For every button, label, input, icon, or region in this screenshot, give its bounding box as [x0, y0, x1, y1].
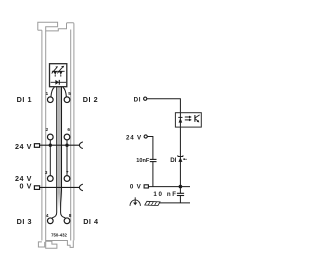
terminal 1 — [47, 97, 53, 103]
hook wire to terminal 1 — [51, 87, 55, 97]
module inner left edge — [45, 31, 47, 241]
wire rail to terminal 3 — [49, 145, 51, 175]
capacitor C2 plate 2 — [177, 195, 184, 197]
wire rail to terminal 7 — [66, 145, 68, 175]
wire junction to capacitor C2 — [179, 187, 181, 194]
diode D1 line — [51, 81, 67, 83]
optocoupler arrow 1 head — [189, 116, 192, 119]
wire DI3 channel (left internal wire to terminal 4) — [52, 87, 57, 218]
optocoupler arrow 1 — [185, 116, 190, 118]
phototransistor emitter — [195, 119, 198, 121]
module bottom left hook — [38, 242, 44, 247]
svg-text:750-432: 750-432 — [51, 233, 67, 238]
zener diode bar — [178, 155, 184, 156]
terminal 7 — [64, 176, 70, 182]
module left outer edge — [41, 30, 43, 240]
capacitor C2 plate 1 — [177, 192, 184, 194]
module inner right edge — [70, 30, 72, 241]
svg-text:6: 6 — [67, 127, 70, 133]
24V branch wire lower — [152, 162, 154, 187]
terminal 6 — [64, 134, 70, 140]
chassis symbol outline — [145, 201, 160, 205]
diode D1 triangle — [55, 80, 59, 85]
LED 2 stub — [60, 75, 62, 77]
diode in box bar — [178, 116, 182, 118]
capacitor C1 plate 1 — [150, 158, 157, 160]
svg-text:10 nF: 10 nF — [153, 191, 177, 198]
internal bus ribbon fade — [58, 193, 63, 209]
diode in box triangle — [179, 118, 183, 123]
optocoupler arrow 2 head — [189, 119, 192, 122]
hook wire to terminal 5 — [63, 87, 67, 97]
svg-text:7: 7 — [66, 170, 69, 176]
svg-text:3: 3 — [45, 170, 48, 176]
module bottom foot block — [46, 241, 57, 248]
terminal 8 — [64, 218, 70, 224]
svg-text:DI: DI — [170, 157, 176, 164]
phototransistor collector — [195, 115, 200, 118]
internal bus ribbon — [58, 87, 63, 193]
svg-text:0 V: 0 V — [130, 183, 142, 190]
DI wire — [147, 99, 181, 187]
LED indicator baseline — [52, 70, 65, 72]
zener mark square 1 — [183, 158, 185, 160]
svg-text:1: 1 — [46, 91, 49, 97]
svg-text:DI 1: DI 1 — [17, 95, 32, 104]
earth wire — [159, 202, 190, 204]
LED 1 triangle — [53, 71, 57, 74]
svg-text:8: 8 — [69, 213, 72, 219]
functional earth arc — [130, 200, 140, 206]
LED arrow 1 head — [55, 66, 58, 68]
terminal 2 — [47, 134, 53, 140]
24V terminal circle — [144, 135, 147, 138]
LED arrow 2 — [57, 68, 62, 74]
LED arrow 2 head — [61, 66, 64, 69]
diode D1 cathode bar — [58, 80, 60, 85]
svg-text:DI: DI — [134, 96, 142, 103]
stub terminal 6 — [66, 140, 68, 145]
0V power rail — [39, 186, 79, 188]
wire capacitor C2 to earth line — [179, 196, 181, 203]
svg-text:0 V: 0 V — [20, 181, 32, 190]
svg-text:10nF: 10nF — [136, 158, 150, 164]
wire DI4 channel (right internal wire to terminal 8) — [61, 87, 66, 218]
functional earth stem — [134, 197, 136, 202]
chassis symbol hatching — [148, 202, 156, 206]
svg-text:DI 2: DI 2 — [83, 95, 98, 104]
junction dot terminal 6 — [65, 144, 68, 147]
terminal 4 — [47, 218, 53, 224]
capacitor C1 plate 2 — [150, 161, 157, 163]
phototransistor emitter arrowhead — [197, 120, 200, 123]
0V rail fork right — [79, 184, 83, 191]
junction dot terminal 2 — [49, 144, 52, 147]
svg-text:24 V: 24 V — [15, 142, 32, 151]
functional earth triangle — [133, 203, 137, 206]
svg-text:DI 3: DI 3 — [17, 217, 32, 226]
module bottom edge with right notch — [46, 240, 74, 247]
24V plug connector left — [34, 144, 39, 148]
terminal 5 — [64, 97, 70, 103]
module outline top profile — [38, 22, 74, 31]
zener diode triangle — [178, 157, 182, 162]
svg-text:5: 5 — [68, 91, 71, 97]
module latch bottom segment — [38, 29, 42, 31]
electronics box — [50, 64, 67, 87]
0V plug connector left — [34, 186, 39, 190]
svg-text:2: 2 — [46, 127, 49, 133]
junction dot — [179, 185, 183, 189]
DI terminal circle — [144, 97, 147, 100]
LED 1 stub — [54, 75, 56, 77]
svg-text:24 V: 24 V — [126, 134, 142, 141]
0V plug schematic — [144, 185, 148, 188]
24V power rail — [39, 144, 79, 146]
24V rail fork right — [79, 142, 83, 149]
phototransistor bar — [194, 115, 196, 122]
svg-text:4: 4 — [46, 213, 49, 219]
optocoupler arrow 2 — [185, 119, 190, 121]
LED arrow 1 — [52, 68, 57, 74]
0V wire — [148, 186, 190, 188]
zener mark square 2 — [186, 159, 187, 160]
svg-text:DI 4: DI 4 — [83, 217, 98, 226]
terminal 3 — [47, 176, 53, 182]
stub terminal 2 — [49, 140, 51, 145]
input electronics box U1 — [175, 113, 201, 127]
LED 2 triangle — [59, 71, 63, 74]
24V branch wire upper — [147, 137, 153, 160]
module right outer edge — [73, 24, 75, 241]
